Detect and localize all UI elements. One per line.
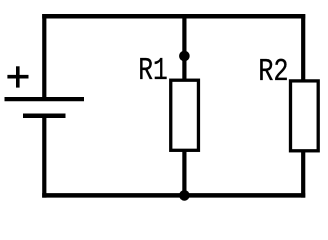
battery BT1 positive plate (5, 97, 85, 101)
wire right (R2 top lead) (301, 14, 305, 81)
resistor R1 body (171, 80, 199, 150)
wire right (R2 bottom lead) (301, 151, 305, 198)
battery BT1 negative plate (23, 114, 66, 119)
node junction dot top (179, 51, 190, 62)
node junction dot bottom (179, 190, 190, 201)
wire left (battery bottom lead) (42, 114, 46, 198)
svg-text:R2: R2 (258, 54, 288, 90)
wire bottom rail (42, 193, 305, 198)
wire R1 branch bottom lead (182, 151, 186, 198)
resistor R2 body (291, 81, 319, 151)
wire top rail (42, 14, 305, 19)
svg-text:R1: R1 (138, 53, 167, 89)
wire R1 branch top lead (182, 14, 186, 81)
battery polarity plus sign (7, 66, 28, 87)
wire left (battery top lead) (42, 14, 46, 97)
